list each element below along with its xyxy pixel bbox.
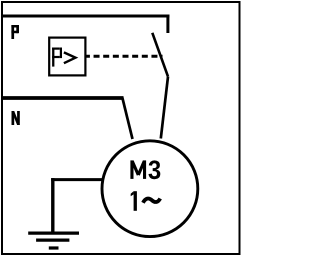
node N (neutral net label): [12, 111, 20, 125]
switch blade (normally open contact): [152, 33, 168, 77]
sensor value label "P" inside box: [52, 48, 62, 67]
wire: N line from left border: [2, 96, 124, 100]
motor M3 circle body: [102, 141, 198, 237]
node P (phase net label): [11, 25, 19, 39]
wire: P line from left border to switch drop: [2, 15, 169, 18]
wire: motor left terminal to ground (horizontal): [51, 178, 102, 181]
motor designator digit 3: [149, 160, 161, 179]
wire: ground drop (vertical): [51, 178, 54, 231]
switch upper fixed contact stub: [166, 15, 169, 34]
pressure switch sensor box outline: [49, 38, 85, 76]
wire: switch lower terminal to motor top-right terminal: [161, 77, 168, 139]
actuator link (dashed) from sensor box to switch blade: [86, 55, 162, 58]
motor phase label tilde wave: [143, 199, 160, 203]
ground symbol (earth, three bars): [28, 233, 79, 248]
wire: N line to motor top-left terminal: [122, 98, 132, 140]
sensor value label ">" inside box: [64, 52, 76, 63]
motor designator letter M: [130, 160, 146, 179]
motor phase label digit 1: [131, 191, 137, 211]
